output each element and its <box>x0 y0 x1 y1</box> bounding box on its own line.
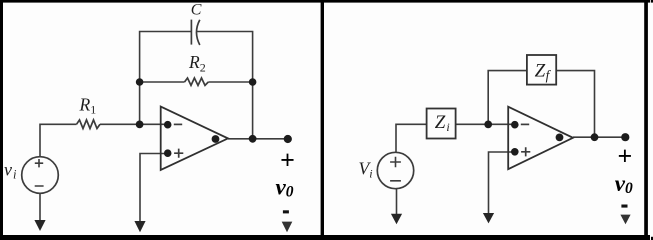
svg-text:C: C <box>191 2 202 19</box>
svg-text:+: + <box>617 142 632 171</box>
svg-text:+: + <box>280 146 295 175</box>
